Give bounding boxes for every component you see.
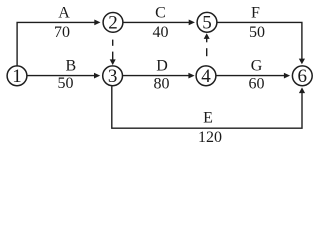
svg-text:4: 4	[201, 66, 211, 87]
svg-text:A: A	[58, 5, 70, 22]
svg-text:50: 50	[249, 24, 265, 41]
wire A: node1 up and right to node2	[17, 22, 95, 65]
node 4	[196, 66, 216, 86]
svg-text:F: F	[251, 5, 260, 22]
node 1	[7, 66, 27, 86]
svg-text:B: B	[65, 57, 76, 74]
dashed dummy 2 to 3	[112, 40, 114, 46]
svg-text:120: 120	[198, 129, 222, 146]
svg-text:3: 3	[108, 66, 118, 87]
svg-text:50: 50	[58, 75, 74, 92]
wire G: node4 to node6	[216, 75, 285, 77]
wire E: node3 down, right, up into node6	[112, 86, 302, 128]
arrowhead into node3 from B	[94, 73, 100, 79]
svg-text:40: 40	[153, 24, 169, 41]
svg-text:60: 60	[249, 76, 265, 93]
arrowhead into node6 bottom from E	[299, 87, 305, 93]
arrowhead into node2	[94, 20, 100, 26]
wire F: node5 right then down to node6	[217, 22, 302, 59]
svg-text:70: 70	[54, 24, 70, 41]
arrowhead into node6 from G	[284, 73, 290, 79]
dashed dummy 4 to 5	[206, 48, 208, 56]
arrowhead dashed dummy into node3 top	[110, 59, 116, 65]
arrowhead into node5 from C	[189, 20, 195, 26]
svg-text:C: C	[155, 5, 166, 22]
svg-text:6: 6	[298, 66, 308, 87]
node 2	[103, 13, 123, 33]
wire C: node2 to node5	[123, 21, 189, 23]
arrowhead into node6 top from F	[299, 59, 305, 65]
svg-text:2: 2	[108, 13, 118, 34]
svg-text:80: 80	[154, 76, 170, 93]
svg-text:5: 5	[202, 13, 212, 34]
arrowhead into node4 from D	[188, 73, 194, 79]
svg-text:G: G	[251, 57, 263, 74]
svg-text:E: E	[203, 110, 213, 127]
node 3	[103, 66, 123, 86]
svg-text:1: 1	[12, 66, 22, 87]
wire B: node1 to node3	[27, 75, 95, 77]
node 6	[292, 66, 312, 86]
arrowhead dashed dummy into node5 bottom	[204, 33, 210, 39]
node 5	[197, 12, 217, 32]
svg-text:D: D	[156, 57, 168, 74]
wire D: node3 to node4	[123, 75, 189, 77]
